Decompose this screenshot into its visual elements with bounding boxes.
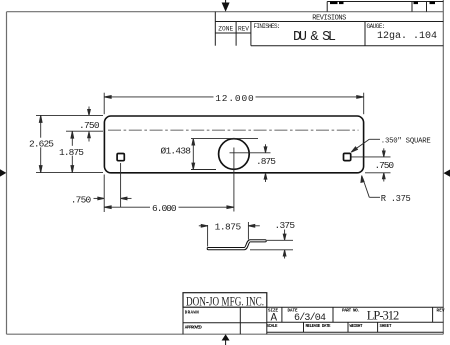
finishes cell (251, 22, 443, 46)
svg-text:1.875: 1.875 (215, 221, 242, 232)
dimension .750 top left (36, 107, 103, 142)
svg-text:REV: REV (437, 309, 445, 313)
title block DON-JO box (183, 293, 267, 308)
dimension 1.875 section (199, 222, 260, 247)
svg-text:SHEET: SHEET (380, 325, 392, 329)
svg-text:.350″ SQUARE: .350″ SQUARE (381, 137, 431, 145)
svg-text:DRAWN: DRAWN (185, 311, 199, 315)
svg-text:6/3/04: 6/3/04 (294, 312, 326, 324)
left square center extension line (120, 163, 122, 207)
dimension .750 right (365, 148, 391, 181)
svg-text:LP-312: LP-312 (367, 308, 400, 322)
svg-text:GAUGE:: GAUGE: (367, 23, 386, 30)
svg-text:ZONE: ZONE (218, 26, 233, 33)
dimension 6.000 (104, 206, 234, 209)
svg-text:SCALE: SCALE (267, 325, 278, 329)
centering mark bottom (222, 334, 230, 345)
svg-text:.750: .750 (79, 120, 100, 131)
svg-text:12ga. .104: 12ga. .104 (377, 31, 437, 42)
section view profile (208, 241, 265, 249)
svg-text:DU & SL: DU & SL (293, 30, 336, 45)
svg-text:REVISIONS: REVISIONS (312, 14, 346, 22)
dimension dia 1.438 (191, 139, 258, 170)
svg-text:WEIGHT: WEIGHT (350, 325, 363, 329)
title block right grid (267, 307, 444, 334)
svg-text:PART NO.: PART NO. (342, 309, 360, 313)
plate outline (104, 116, 363, 173)
center hole circle (219, 139, 250, 170)
dimension 1.875 left (71, 131, 74, 172)
zone rev cells (215, 22, 251, 46)
svg-text:.750: .750 (375, 160, 395, 171)
leader .350 SQUARE (351, 139, 380, 152)
svg-text:.750: .750 (71, 195, 92, 206)
svg-text:A: A (270, 313, 277, 325)
right square extension line (352, 156, 391, 158)
centering mark left (0, 169, 6, 176)
svg-text:RELEASE DATE: RELEASE DATE (306, 325, 331, 329)
svg-text:REV: REV (238, 26, 249, 33)
dimension 12.000 (104, 93, 364, 115)
svg-text:12.000: 12.000 (215, 93, 254, 104)
svg-text:APPROVED: APPROVED (185, 326, 202, 330)
dimension .875 (264, 144, 267, 182)
dimension 2.625 (36, 115, 103, 172)
centering mark right (444, 170, 450, 177)
leader R .375 (361, 176, 380, 198)
left square hole (117, 154, 124, 161)
svg-text:.875: .875 (256, 156, 276, 167)
svg-text:DON-JO MFG. INC.: DON-JO MFG. INC. (186, 295, 264, 309)
title block left cells (183, 307, 267, 334)
svg-text:R .375: R .375 (381, 194, 411, 204)
revisions header row (215, 12, 443, 46)
revisions table partial top row (327, 2, 443, 12)
svg-text:1.875: 1.875 (59, 147, 84, 158)
plate centerline (108, 129, 359, 131)
svg-text:Ø1.438: Ø1.438 (161, 145, 192, 156)
centering mark top (222, 0, 230, 12)
svg-text:FINISHES:: FINISHES: (254, 23, 281, 30)
dimension .375 section (250, 230, 293, 259)
circle center crosshair (230, 148, 271, 212)
svg-text:2.625: 2.625 (29, 138, 54, 149)
right square hole (344, 153, 351, 160)
svg-text:.375: .375 (275, 220, 296, 231)
dimension .750 bottom left (94, 175, 132, 213)
svg-text:6.000: 6.000 (152, 203, 177, 214)
partial row cut-off text marks (330, 1, 435, 4)
